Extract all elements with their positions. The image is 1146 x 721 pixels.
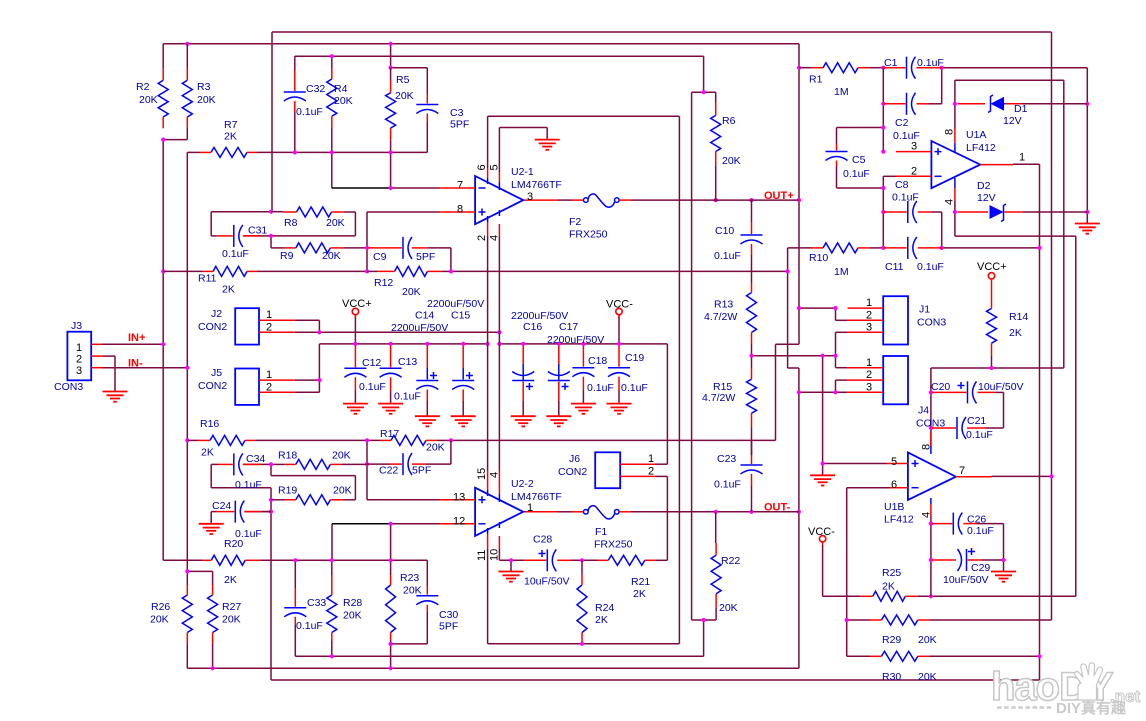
label C12 [359, 357, 386, 393]
ground J3 pin2 [103, 392, 128, 402]
svg-text:R18: R18 [278, 450, 297, 462]
resistor R22 20K [711, 512, 721, 608]
label D2 [977, 180, 996, 204]
svg-text:C17: C17 [559, 321, 578, 333]
junction dots OUT- net [449, 269, 453, 273]
svg-text:C26: C26 [967, 514, 986, 526]
resistor R21 2K [597, 555, 656, 565]
svg-text:5PF: 5PF [412, 465, 431, 477]
capacitor C2 0.1uF [883, 93, 929, 115]
svg-text:1: 1 [527, 502, 533, 514]
svg-text:C15: C15 [451, 310, 470, 322]
power VCC- symbol (bottom, R25) [819, 536, 825, 545]
capacitor C34 0.1uF [218, 453, 261, 475]
resistor R19 20K [285, 495, 343, 505]
wire ground jog top right (C1 right to D1/D2 ground) [929, 68, 1087, 224]
junction dots right ground net [881, 66, 885, 70]
svg-text:R8: R8 [284, 217, 298, 229]
svg-text:VCC+: VCC+ [977, 261, 1007, 273]
svg-text:C12: C12 [362, 357, 381, 369]
svg-text:20K: 20K [403, 585, 422, 597]
capacitor C11 0.1uF [883, 237, 941, 259]
diode D2 12V zener [958, 204, 1023, 222]
svg-text:C19: C19 [625, 352, 644, 364]
svg-text:7: 7 [959, 465, 965, 477]
svg-text:R20: R20 [224, 538, 243, 550]
junction dots IN- net [185, 366, 189, 370]
svg-text:2K: 2K [224, 574, 237, 586]
svg-text:J5: J5 [211, 367, 222, 379]
resistor R7 2K [187, 147, 257, 157]
resistor R10 1M [812, 243, 871, 253]
svg-text:C29: C29 [971, 562, 990, 574]
junction dots U1A -input [881, 186, 885, 190]
svg-text:C31: C31 [248, 225, 267, 237]
svg-text:2K: 2K [882, 581, 895, 593]
svg-text:C18: C18 [588, 355, 607, 367]
label F1 [594, 526, 633, 551]
svg-text:2K: 2K [633, 588, 646, 600]
svg-text:0.1uF: 0.1uF [359, 381, 386, 393]
svg-text:F2: F2 [569, 216, 581, 228]
resistor R5 20K [386, 68, 396, 141]
wire OUT- long feedback row and verticals [187, 248, 847, 668]
resistor R17 20K [380, 435, 437, 445]
svg-text:DIY真有趣: DIY真有趣 [1056, 699, 1127, 717]
label R11 [198, 273, 235, 296]
capacitor C26 0.1uF [932, 513, 977, 535]
junction dots C32/R4/R6 net [330, 54, 334, 58]
svg-text:0.1uF: 0.1uF [587, 382, 614, 394]
wire supply column U2-1 pin4 / U2-2 pin4 [498, 236, 500, 470]
resistor R29 20K [870, 615, 930, 625]
svg-text:3: 3 [527, 191, 533, 203]
wire U1A pin8 supply net to C20/C21/R14 [931, 80, 1064, 446]
label J1 [917, 304, 946, 329]
svg-text:C14: C14 [415, 310, 434, 322]
wire Zobel R15-C23 link [751, 428, 753, 456]
svg-text:C13: C13 [398, 356, 417, 368]
label R13 [704, 299, 737, 324]
wire U2-2 pin10 / C28 / R21 / J6 pin2 net [499, 476, 667, 571]
svg-text:C1: C1 [884, 57, 898, 69]
label C30 [439, 609, 458, 633]
resistor R13 4.7/2W [747, 283, 757, 344]
capacitor C17 2200uF/50V [548, 346, 570, 416]
junction dots OUT+ net [185, 42, 189, 46]
svg-text:2K: 2K [201, 447, 214, 459]
svg-text:5PF: 5PF [450, 119, 469, 131]
resistor R25 2K [860, 591, 918, 601]
svg-text:4: 4 [944, 199, 956, 205]
svg-text:C30: C30 [439, 609, 458, 621]
svg-text:12: 12 [453, 516, 465, 528]
capacitor C14 2200uF/50V [416, 346, 438, 416]
svg-text:R23: R23 [400, 572, 419, 584]
svg-text:7: 7 [457, 180, 463, 192]
label C32 [296, 83, 325, 118]
label U2-1 [511, 166, 562, 191]
svg-text:2K: 2K [1009, 327, 1022, 339]
svg-text:R28: R28 [343, 597, 362, 609]
wire J3 pin2 to ground [103, 356, 115, 391]
wire C32/R4 top net to R6 and R22/C33/R28 bottoms [295, 56, 716, 656]
svg-text:1: 1 [1019, 152, 1025, 164]
resistor R18 20K [285, 459, 342, 469]
capacitor C22 5PF [390, 453, 426, 475]
power VCC- symbol (mid) [616, 308, 622, 318]
label C21 [966, 415, 993, 441]
svg-text:OUT+: OUT+ [764, 190, 794, 202]
label C13 [394, 356, 421, 403]
svg-text:R1: R1 [809, 74, 823, 86]
wire C20 right link [985, 392, 1004, 428]
svg-text:U2-1: U2-1 [511, 166, 534, 178]
pin numbers U1A [911, 129, 1025, 205]
resistor R20 2K [203, 555, 261, 565]
label R22 [719, 555, 740, 614]
ground C17 [546, 416, 571, 426]
capacitor C31 0.1uF [211, 225, 261, 247]
label C26 [967, 514, 994, 538]
op-amp U2-1 LM4766TF [440, 168, 523, 236]
svg-text:2: 2 [866, 369, 872, 381]
svg-text:2K: 2K [224, 131, 237, 143]
svg-text:4: 4 [489, 472, 501, 478]
wire OUT+ vertical to J1 and lower feedback row [451, 68, 848, 441]
svg-text:C33: C33 [307, 597, 326, 609]
label C28 [524, 534, 570, 588]
svg-text:D2: D2 [977, 180, 991, 192]
resistor R8 20K [271, 207, 344, 217]
svg-text:15: 15 [476, 468, 488, 480]
ground C29 [991, 572, 1016, 582]
wire J2 pins to VCC- column [295, 320, 500, 332]
label C14 C15 values [391, 298, 484, 334]
svg-text:CON2: CON2 [198, 380, 227, 392]
label C2 [893, 117, 920, 142]
pin numbers J1 [866, 297, 872, 333]
svg-text:0.1uF: 0.1uF [714, 479, 741, 491]
junction dots C28 row [509, 558, 513, 562]
svg-text:0.1uF: 0.1uF [296, 106, 323, 118]
capacitor C28 10uF/50V [524, 549, 571, 571]
op-amp U1A LF412 [896, 129, 1013, 201]
wire R20/C33/R28/R23/C30 row [260, 560, 427, 588]
resistor R14 2K [987, 281, 997, 356]
pin numbers J6 [648, 453, 654, 477]
wire U2-1 pin6 to U2-2 pin11 tie line [488, 116, 680, 644]
wire mid ground net (R13/R15 junction, J1 pin3, J4 pin1, U1B pin5) [752, 332, 887, 475]
svg-text:C10: C10 [715, 225, 734, 237]
label C22 [379, 465, 431, 477]
svg-text:2K: 2K [222, 284, 235, 296]
resistor R30 20K [870, 651, 930, 661]
svg-text:1M: 1M [834, 86, 849, 98]
power VCC+ symbol (right, R14) [988, 273, 994, 281]
svg-text:1: 1 [866, 297, 872, 309]
wire R1 input row [799, 67, 883, 69]
svg-text:6: 6 [891, 479, 897, 491]
label R9 [280, 250, 341, 262]
svg-text:20K: 20K [722, 155, 741, 167]
svg-text:C24: C24 [212, 500, 231, 512]
junction dots servo output net [1049, 474, 1053, 478]
svg-text:R27: R27 [222, 601, 241, 613]
ground C13 [378, 404, 403, 414]
label R14 [1009, 311, 1028, 339]
label R5 [395, 74, 414, 102]
resistor R1 1M [811, 63, 870, 73]
junction dots pin8 node [365, 246, 369, 250]
label C20 [931, 381, 1024, 393]
svg-text:IN-: IN- [128, 358, 143, 370]
label R19 [278, 485, 352, 497]
svg-text:VCC-: VCC- [808, 526, 835, 538]
svg-text:R19: R19 [278, 485, 297, 497]
label C11 [885, 261, 944, 273]
svg-text:2: 2 [476, 235, 488, 241]
svg-text:CON3: CON3 [916, 418, 945, 430]
capacitor C16 2200uF/50V [512, 346, 534, 416]
label R4 [334, 83, 353, 107]
wire black segment to U2-1 pin7 [332, 187, 391, 189]
svg-text:2200uF/50V: 2200uF/50V [427, 298, 484, 310]
connector J6 CON2 [595, 452, 655, 488]
wire R23/C30 bottom link [391, 612, 428, 644]
svg-text:2: 2 [866, 309, 872, 321]
label R3 [197, 81, 216, 106]
ground C14 [415, 416, 440, 426]
label C29 [943, 562, 990, 586]
svg-text:CON3: CON3 [54, 381, 83, 393]
svg-text:20K: 20K [332, 450, 351, 462]
label R12 [374, 277, 421, 298]
label C19 [621, 352, 648, 394]
svg-text:20K: 20K [918, 634, 937, 646]
svg-text:FRX250: FRX250 [569, 229, 608, 241]
svg-text:C16: C16 [523, 321, 542, 333]
resistor R11 2K [163, 266, 257, 276]
ground D1 D2 [1075, 224, 1100, 234]
svg-text:1: 1 [866, 357, 872, 369]
label J2 [198, 308, 227, 333]
label R24 [595, 602, 614, 626]
svg-text:R22: R22 [721, 555, 740, 567]
resistor R27 20K [208, 585, 218, 644]
svg-text:R13: R13 [714, 299, 733, 311]
label R20 [224, 538, 243, 586]
label C34 [235, 453, 265, 491]
svg-text:R9: R9 [280, 250, 294, 262]
svg-text:0.1uF: 0.1uF [967, 525, 994, 537]
svg-text:3: 3 [76, 365, 82, 377]
label R15 [702, 381, 735, 404]
wire supply column U2-1 pin2 / U2-2 pin15 [487, 236, 489, 470]
junction dots U1A +input [881, 102, 885, 106]
wire D1 cathode to ground column [1022, 103, 1087, 105]
connector J3 CON3 [67, 332, 103, 381]
svg-text:3: 3 [866, 381, 872, 393]
junction dots mid ground net [749, 354, 753, 358]
svg-text:U1A: U1A [966, 129, 986, 141]
ground C19 [607, 404, 632, 414]
op-amp U1B LF412 [887, 432, 992, 516]
label C3 [450, 107, 469, 131]
diode D1 12V zener [958, 95, 1022, 113]
ground C28 [499, 572, 524, 582]
junction dots R20 row [293, 558, 297, 562]
wire VCC+ rail [295, 315, 488, 392]
svg-text:J1: J1 [919, 304, 930, 316]
label R2 [136, 81, 158, 106]
label R29 [882, 634, 937, 646]
svg-text:20K: 20K [222, 614, 241, 626]
junction dot R24 bottom [580, 642, 584, 646]
svg-text:8: 8 [921, 444, 933, 450]
junction dots pin8 supply net [953, 102, 957, 106]
label R26 [150, 601, 170, 626]
svg-text:20K: 20K [334, 95, 353, 107]
connector J1 CON3 [848, 296, 908, 344]
svg-text:2: 2 [648, 465, 654, 477]
svg-text:CON3: CON3 [917, 317, 946, 329]
pin numbers U2-2 [453, 468, 533, 561]
wire U2-1 pin7 node row (R7/C32/R4/R5/C3) [258, 112, 441, 188]
svg-text:5PF: 5PF [416, 251, 435, 263]
label J5 [198, 367, 227, 392]
svg-text:2: 2 [76, 354, 82, 366]
svg-text:IN+: IN+ [128, 332, 145, 344]
wire Zobel C10-R13 link [751, 255, 753, 283]
svg-text:R11: R11 [198, 273, 217, 285]
svg-text:2200uF/50V: 2200uF/50V [547, 334, 604, 346]
wire U1A +input column (R1/C1/C2/C5 top) [837, 68, 884, 152]
svg-text:20K: 20K [197, 94, 216, 106]
svg-text:R5: R5 [396, 74, 410, 86]
label R8 [284, 217, 345, 229]
wire VCC- bottom stem to R25 [823, 545, 861, 596]
svg-text:C5: C5 [852, 154, 866, 166]
label R1 [809, 74, 849, 99]
svg-text:4: 4 [921, 512, 933, 518]
wire IN+ net column [102, 127, 203, 560]
resistor R16 2K [187, 435, 256, 445]
svg-text:R24: R24 [595, 602, 614, 614]
ground U1B pin5 [810, 475, 835, 485]
svg-text:C8: C8 [895, 179, 909, 191]
resistor R2 20K [158, 44, 168, 129]
capacitor C3 5PF [416, 94, 438, 122]
power VCC+ symbol (left) [352, 308, 358, 318]
svg-text:13: 13 [453, 492, 465, 504]
resistor R23 20K [386, 575, 396, 640]
svg-text:10uF/50V: 10uF/50V [943, 574, 989, 586]
capacitor C18 0.1uF [572, 346, 594, 404]
junction dots pin7 node [293, 150, 297, 154]
svg-text:4.7/2W: 4.7/2W [702, 392, 735, 404]
svg-text:0.1uF: 0.1uF [222, 248, 249, 260]
svg-text:R2: R2 [136, 81, 150, 93]
svg-text:12V: 12V [1003, 115, 1022, 127]
wire U2-1 pin5 to ground [499, 128, 547, 173]
svg-text:VCC-: VCC- [606, 299, 633, 311]
svg-text:20K: 20K [326, 217, 345, 229]
svg-text:J2: J2 [211, 308, 222, 320]
svg-text:C32: C32 [306, 83, 325, 95]
svg-text:0.1uF: 0.1uF [966, 429, 993, 441]
capacitor C29 10uF/50V [932, 548, 981, 571]
junction dots VCC- rail [317, 330, 321, 334]
svg-text:C9: C9 [373, 251, 387, 263]
svg-text:20K: 20K [139, 94, 158, 106]
label C23 [714, 453, 741, 491]
svg-text:R12: R12 [374, 277, 393, 289]
pin numbers U1B [891, 444, 965, 518]
wire C34/R18/R19 servo injection network [211, 464, 367, 499]
resistor R26 20K [182, 585, 192, 644]
capacitor C8 0.1uF [883, 201, 932, 223]
svg-text:FRX250: FRX250 [594, 539, 633, 551]
pin numbers J4 [866, 357, 872, 393]
pin numbers U2-1 [457, 164, 533, 241]
capacitor C23 0.1uF [741, 440, 763, 486]
svg-text:0.1uF: 0.1uF [235, 479, 262, 491]
svg-text:R21: R21 [631, 576, 650, 588]
wire U2-1 pin8 node column [258, 212, 441, 271]
resistor R12 20K [367, 266, 442, 276]
svg-text:J3: J3 [71, 320, 82, 332]
label C10 [714, 225, 741, 262]
capacitor C30 5PF [416, 586, 438, 612]
svg-text:C11: C11 [885, 261, 904, 273]
capacitor C1 0.1uF [883, 57, 941, 79]
svg-text:R7: R7 [224, 119, 238, 131]
svg-text:2200uF/50V: 2200uF/50V [391, 322, 448, 334]
svg-text:1: 1 [266, 369, 272, 381]
label R18 [278, 450, 351, 462]
label C24 [212, 500, 262, 540]
svg-text:2: 2 [266, 321, 272, 333]
svg-text:3: 3 [911, 141, 917, 153]
svg-text:5: 5 [489, 164, 501, 170]
resistor R6 20K [711, 102, 721, 165]
label J4 [916, 405, 945, 430]
wire C23 bottom lead [751, 486, 753, 512]
junction dots R8/C31 node [269, 210, 273, 214]
svg-text:LF412: LF412 [966, 142, 996, 154]
wire U2-2 pin12 node with black segment [332, 524, 440, 561]
junction dots C26/C29 [929, 522, 933, 526]
svg-text:LF412: LF412 [884, 514, 914, 526]
wire servo output loop net (U1A/U1B servo outs) [271, 32, 1052, 680]
wire U1B pin4 decoupling column C26/C29 [931, 516, 1004, 596]
svg-text:R26: R26 [151, 601, 170, 613]
resistor R3 20K [182, 44, 192, 128]
label C1 [884, 57, 944, 69]
svg-text:4.7/2W: 4.7/2W [704, 311, 737, 323]
wire R6 bottom to OUT+ row [715, 165, 717, 200]
svg-text:20K: 20K [719, 602, 738, 614]
label C5 [843, 154, 870, 180]
svg-text:0.1uF: 0.1uF [394, 391, 421, 403]
svg-text:C3: C3 [450, 107, 464, 119]
svg-text:D1: D1 [1014, 103, 1028, 115]
pin numbers J5 [266, 369, 272, 393]
label R27 [222, 601, 241, 626]
svg-text:10uF/50V: 10uF/50V [978, 381, 1024, 393]
svg-text:20K: 20K [150, 614, 169, 626]
